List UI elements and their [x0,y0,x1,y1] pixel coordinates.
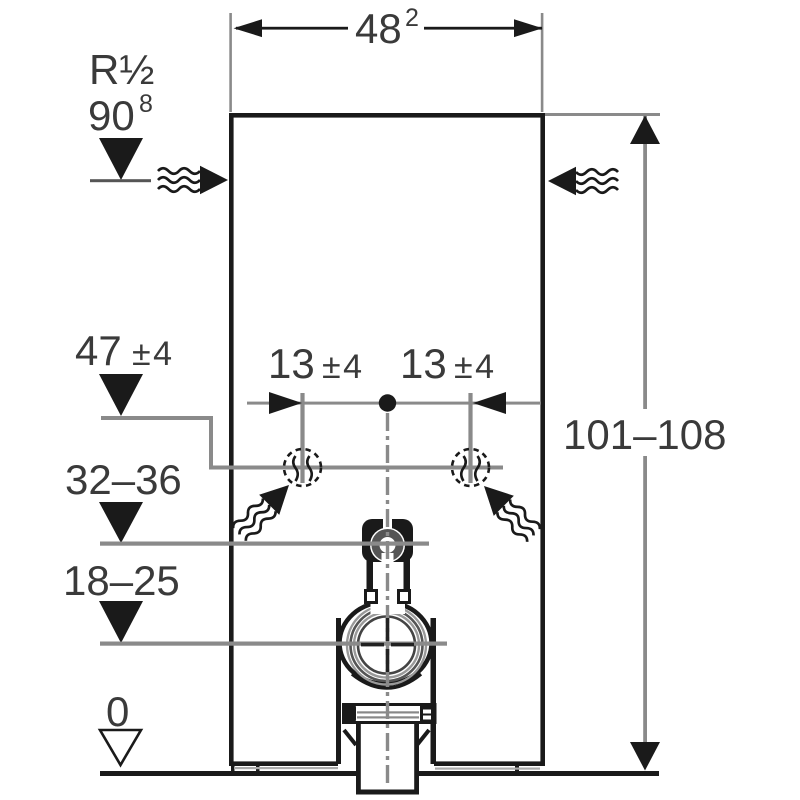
svg-text:±4: ±4 [322,348,365,386]
svg-text:18–25: 18–25 [63,557,180,604]
center dot [379,394,396,411]
svg-text:±4: ±4 [132,335,175,373]
svg-text:90: 90 [88,92,135,139]
svg-text:101–108: 101–108 [563,411,727,458]
top gray line to right dim [545,113,660,116]
svg-text:32–36: 32–36 [65,456,182,503]
neck sides [367,558,374,604]
witness line left (top dim) [229,13,232,112]
water arrow top right [548,167,618,195]
bowl rings [347,606,426,685]
feet left [231,765,235,772]
bowl bottom arc [352,674,421,688]
witness line right (top dim) [541,13,544,112]
panel left edge [229,113,234,766]
tick right [468,393,472,483]
water squiggles in left circle [293,456,312,481]
level triangle 32-36 [99,502,143,543]
connection circle left [284,449,321,486]
zero open triangle [100,730,141,765]
neck clips [364,589,378,604]
right dim arrow down [630,742,660,771]
svg-text:2: 2 [405,4,419,32]
svg-text:47: 47 [75,327,122,374]
top connector ring [370,528,405,563]
floor line [100,771,357,776]
connection circle right [452,449,489,486]
water squiggles in right circle [461,456,480,481]
feet right [515,765,519,772]
panel right edge [540,113,545,766]
dim 48 arrow left [234,19,263,37]
centerline [386,413,389,788]
dim line 48 [236,27,348,30]
water arrow bottom left [229,475,299,545]
fitting group [336,519,436,795]
svg-text:13: 13 [268,340,315,387]
center cross ticks [361,643,384,647]
panel bottom edge left part [229,761,338,766]
level line 18-25 [100,642,447,646]
svg-text:13: 13 [400,340,447,387]
water arrow bottom right [474,476,544,546]
bowl outer [340,602,432,684]
svg-text:±4: ±4 [454,348,497,386]
svg-text:0: 0 [106,688,129,735]
outlet pipe [356,722,361,792]
tick left [300,393,304,483]
top connector black lobes [362,519,413,562]
svg-text:48: 48 [355,5,402,52]
side bar right [431,618,437,764]
level triangle 47 [99,374,143,416]
level jog line 47 [101,418,503,468]
panel bottom edge right part [434,761,545,766]
side bar left [336,618,341,764]
panel top edge [229,113,545,118]
clamp band [344,705,436,723]
svg-text:R½: R½ [89,46,154,93]
svg-text:8: 8 [139,90,153,118]
right dim arrow up [630,116,660,145]
dim 13 arrow left [269,392,302,414]
dim 48 arrow right [514,19,543,37]
water arrow top left [158,166,228,194]
level triangle 18-25 [99,601,143,643]
level line 32-36 [100,542,429,546]
dim line 13+-4 [247,402,541,405]
level line R1/2 [90,179,151,182]
neck channel [371,592,406,614]
dim 13 arrow right [473,392,506,414]
diagonal struts [344,730,356,745]
level triangle R1/2 [99,138,143,180]
right dim line 101-108 [643,116,647,409]
